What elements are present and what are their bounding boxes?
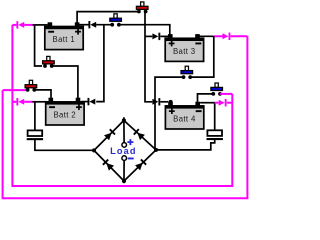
wire Batt 1 minus down-left branch bbox=[35, 25, 42, 66]
switch S6 (blue, above Batt 4) bbox=[211, 83, 223, 96]
node bridge bottom bbox=[122, 179, 126, 183]
switch S2 (blue, right of Batt 1) bbox=[110, 14, 122, 27]
wire D1 to S2 bbox=[96, 24, 112, 26]
wire bridge edge T-R bbox=[124, 120, 156, 149]
svg-text:Load: Load bbox=[110, 146, 137, 156]
wire node down to capacitor C1 bbox=[34, 102, 36, 131]
wire load top lead bbox=[123, 120, 125, 142]
wire S1 to Batt 2 plus bbox=[52, 66, 78, 98]
diode D5 (magenta, left of Batt 1) bbox=[16, 21, 24, 28]
wire bridge edge T-L bbox=[94, 120, 124, 150]
label load plus bbox=[127, 139, 133, 145]
switch S3 (red, top centre) bbox=[136, 2, 148, 14]
node Batt 4 plus junction bbox=[169, 100, 173, 104]
wire load bottom lead bbox=[123, 161, 125, 181]
switch S4 (blue, below Batt 3) bbox=[181, 66, 193, 79]
wire magenta outer rail (net B-) bbox=[3, 36, 248, 198]
diode D2 (left of Batt 3) bbox=[152, 33, 160, 40]
diode D6 (magenta, right of Batt 3) bbox=[223, 33, 231, 40]
svg-text:Batt 3: Batt 3 bbox=[173, 47, 195, 56]
wire S6 left to Batt 4 minus bbox=[198, 94, 214, 102]
wire S5 to Batt 2 minus bbox=[34, 90, 51, 98]
wire D2 junction down bbox=[96, 25, 104, 102]
wire magenta D7 to node bbox=[24, 101, 33, 103]
diode D8 (magenta, right of Batt 4) bbox=[219, 99, 227, 106]
wire magenta diode D5 anode feed bbox=[12, 24, 16, 26]
wire magenta outer rail to S5 bbox=[3, 89, 26, 91]
svg-text:Batt 2: Batt 2 bbox=[53, 111, 75, 120]
wire bridge edge R-B bbox=[124, 150, 156, 181]
node bridge right bbox=[154, 148, 158, 152]
wire bridge bottom stub bbox=[123, 181, 125, 183]
wire magenta inner rail to D7 bbox=[12, 101, 16, 103]
svg-text:Batt 4: Batt 4 bbox=[173, 115, 196, 124]
diode D12 (bridge lower-right) bbox=[135, 159, 146, 170]
wire bridge edge L-B bbox=[94, 150, 124, 181]
battery Batt 2 bbox=[45, 98, 84, 125]
wire S4 left down to bridge right bbox=[155, 77, 183, 150]
wire D2 to Batt 3 plus bbox=[160, 35, 168, 37]
wire Batt 1 plus up to top rail bbox=[77, 12, 138, 25]
switch S5 (red, above Batt 2) bbox=[25, 80, 37, 92]
wire C2 node down to capacitor bbox=[214, 103, 216, 131]
wire node to Batt 1 minus bbox=[33, 24, 48, 26]
node bridge left bbox=[92, 148, 96, 152]
wire C2 to bridge right bbox=[156, 140, 215, 150]
label load minus bbox=[128, 158, 134, 160]
diode D10 (bridge upper-right) bbox=[134, 129, 145, 140]
capacitor C2 (right) bbox=[207, 130, 223, 140]
svg-text:Batt 1: Batt 1 bbox=[53, 35, 75, 44]
wire S3 down main vertical bbox=[145, 12, 152, 102]
node Batt 3 plus junction bbox=[168, 35, 172, 39]
battery Batt 3 bbox=[165, 34, 204, 61]
wire magenta to D6 bbox=[214, 35, 223, 37]
wire Batt 1 plus to D1 bbox=[77, 24, 89, 26]
wire S4 up to Batt 3 minus net bbox=[190, 36, 214, 77]
wire magenta inner rail (net B+) bbox=[12, 25, 232, 186]
wire magenta D5 to node bbox=[24, 24, 33, 26]
wire bridge top stub bbox=[123, 117, 125, 120]
diode D9 (bridge upper-left) bbox=[104, 129, 115, 140]
node bridge top bbox=[122, 118, 126, 122]
wire magenta D6 to outer rail bbox=[231, 35, 248, 37]
diode D3 (right of Batt 2) bbox=[88, 98, 96, 105]
capacitor C1 (left) bbox=[27, 130, 43, 140]
diode D7 (magenta, left of Batt 2) bbox=[16, 98, 24, 105]
label Load bbox=[110, 146, 137, 156]
battery Batt 4 bbox=[165, 102, 204, 129]
wire magenta to D8 bbox=[215, 102, 219, 104]
load terminal top bbox=[122, 143, 127, 148]
load terminal bottom bbox=[122, 156, 127, 161]
wire Batt 4 minus to C2 node bbox=[200, 102, 215, 104]
wire C1 to bridge left bbox=[35, 140, 92, 151]
wire Batt 3 minus to net bbox=[198, 35, 214, 36]
switch S1 (red, below Batt 1) bbox=[43, 56, 55, 68]
battery Batt 1 bbox=[44, 22, 83, 49]
diode D1 (right of Batt 1) bbox=[88, 21, 96, 28]
diode D11 (bridge lower-left) bbox=[103, 160, 114, 171]
wire S2 to Batt 3 corner bbox=[119, 25, 170, 37]
diode D4 (left of Batt 4) bbox=[152, 98, 160, 105]
wire branch to D2 anode bbox=[145, 35, 152, 37]
wire Batt 2 plus to D3 bbox=[81, 101, 88, 103]
wire magenta S6 right to inner rail bbox=[220, 93, 232, 95]
wire D4 to Batt 4 plus bbox=[160, 101, 168, 103]
wire node to Batt 2 minus bump bbox=[33, 101, 48, 103]
wire magenta D8 to inner rail bbox=[227, 102, 233, 104]
